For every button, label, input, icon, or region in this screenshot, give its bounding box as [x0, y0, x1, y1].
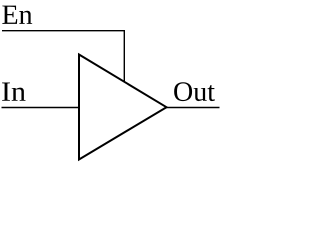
tri-state buffer U1 (triangle): [79, 55, 167, 160]
wire In: [2, 107, 80, 109]
label In: [2, 82, 25, 100]
label En: [2, 6, 32, 24]
label Out: [174, 82, 215, 101]
wire En (horizontal from label, corner, vertical down to buffer top edge): [2, 31, 124, 82]
wire Out: [167, 107, 220, 109]
